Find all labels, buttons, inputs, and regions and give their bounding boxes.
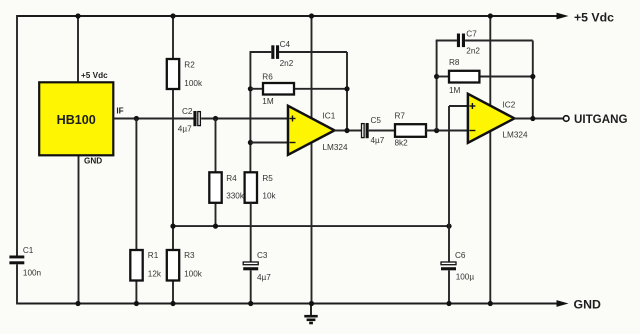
R2 value labels — [184, 60, 203, 88]
svg-text:R8: R8 — [449, 58, 460, 67]
svg-text:C2: C2 — [182, 107, 193, 116]
wire IC2 output feedback vertical — [532, 41, 534, 119]
IC1 - pin mark — [290, 142, 296, 144]
svg-text:R2: R2 — [184, 60, 195, 69]
wire +5V top rail — [17, 15, 559, 17]
svg-text:C6: C6 — [455, 251, 466, 260]
svg-text:4µ7: 4µ7 — [178, 124, 192, 133]
svg-text:1M: 1M — [449, 86, 461, 95]
op-amp IC1 — [288, 106, 335, 155]
GND arrowhead — [557, 300, 569, 307]
svg-text:IC1: IC1 — [323, 112, 336, 121]
HB100 pin label GND — [84, 157, 102, 166]
wire IC1 - input — [250, 142, 288, 144]
R1 value labels — [148, 251, 162, 278]
node R8 right — [530, 74, 535, 79]
node IC1 power on top rail — [309, 13, 314, 18]
wire GND bottom rail — [17, 303, 559, 305]
capacitor C5 — [362, 123, 369, 138]
node R8 left — [434, 74, 439, 79]
UITGANG label — [574, 113, 627, 126]
wire IC1 output to C5 — [335, 130, 362, 132]
HB100 name label — [57, 113, 96, 127]
wire R1 branch — [135, 119, 137, 304]
node R6 left — [248, 86, 253, 91]
svg-text:C5: C5 — [371, 116, 382, 125]
svg-text:IF: IF — [116, 106, 123, 115]
R7 value labels — [395, 112, 409, 148]
wire IC2 power vertical — [489, 16, 491, 304]
capacitor C6 — [441, 262, 456, 270]
module HB100 — [39, 82, 113, 155]
node IC2 - input feedback tap — [434, 128, 439, 133]
svg-text:8k2: 8k2 — [395, 139, 409, 148]
node IC2 power on top rail — [488, 13, 493, 18]
wire IF output to C2 — [113, 118, 193, 120]
node R1 tap on IF wire — [134, 116, 139, 121]
svg-text:100µ: 100µ — [456, 272, 475, 281]
ground earth symbol — [304, 304, 317, 324]
capacitor C3 — [243, 262, 258, 270]
node IC1 power on bottom rail — [309, 301, 314, 306]
C6 value labels — [455, 251, 474, 282]
node C3 on bottom rail — [248, 301, 253, 306]
capacitor C7 — [457, 34, 465, 48]
wire C7 branch top — [436, 40, 533, 42]
node C6 on bottom rail — [446, 301, 451, 306]
C4 value labels — [280, 40, 294, 68]
svg-text:C7: C7 — [466, 29, 477, 38]
wire C1 branch left vertical — [16, 15, 18, 305]
svg-text:2n2: 2n2 — [280, 59, 294, 68]
R6 value labels — [262, 73, 274, 107]
wire bias mid rail — [173, 225, 449, 227]
svg-text:C3: C3 — [257, 251, 268, 260]
resistor R4 — [209, 172, 221, 203]
svg-text:C4: C4 — [280, 40, 291, 49]
svg-text:R1: R1 — [148, 251, 159, 260]
svg-text:1M: 1M — [262, 97, 274, 106]
op-amp IC2 — [468, 94, 515, 143]
node R6 right — [344, 86, 349, 91]
+5 Vdc label — [574, 11, 614, 25]
svg-text:R5: R5 — [262, 174, 273, 183]
svg-text:HB100: HB100 — [57, 113, 96, 127]
node IC2 output feedback tap — [530, 116, 535, 121]
svg-text:C1: C1 — [23, 246, 34, 255]
HB100 pin label +5 Vdc — [81, 71, 108, 80]
UITGANG terminal — [563, 116, 569, 122]
svg-text:UITGANG: UITGANG — [574, 113, 627, 126]
node IC1 output feedback tap — [344, 128, 349, 133]
resistor R7 — [395, 124, 426, 137]
node HB100 supply on top rail — [75, 13, 80, 18]
C3 value labels — [257, 251, 271, 282]
svg-text:100n: 100n — [23, 268, 42, 277]
node C6 tap on bias rail — [446, 224, 451, 229]
wire IC2 feedback vertical — [436, 41, 438, 131]
wire R8 leads — [437, 76, 533, 78]
IC2 - pin mark — [469, 130, 475, 132]
IC1 + pin mark — [290, 116, 296, 122]
wire R7 to IC2 - input — [426, 130, 468, 132]
svg-text:100k: 100k — [184, 79, 203, 88]
IC2 name labels — [503, 101, 528, 140]
wire R4 branch — [215, 119, 217, 227]
wire HB100 +5V supply — [77, 16, 79, 82]
resistor R6 — [263, 83, 294, 95]
wire IC2 + input bias branch — [449, 106, 468, 226]
svg-text:IC2: IC2 — [503, 101, 516, 110]
svg-text:GND: GND — [84, 157, 102, 166]
wire IC2 output to UITGANG — [514, 118, 563, 120]
wire IC1 output feedback vertical — [346, 52, 348, 131]
svg-text:100k: 100k — [184, 270, 203, 279]
svg-text:2n2: 2n2 — [466, 47, 480, 56]
wire C4 branch top — [250, 51, 348, 53]
svg-text:12k: 12k — [148, 270, 162, 279]
svg-text:+5 Vdc: +5 Vdc — [81, 71, 108, 80]
capacitor C1 — [9, 256, 24, 265]
svg-text:330k: 330k — [226, 192, 245, 201]
wire IC1 feedback vertical (C4/R6/R5 node) — [249, 52, 251, 172]
R5 value labels — [262, 174, 276, 201]
svg-text:LM324: LM324 — [503, 131, 528, 140]
GND label — [574, 298, 601, 312]
svg-text:GND: GND — [574, 298, 601, 312]
wire C2 to IC1 + input — [201, 118, 288, 120]
resistor R8 — [449, 71, 479, 83]
svg-text:R6: R6 — [262, 73, 273, 82]
HB100 pin label IF — [116, 106, 123, 115]
wire R5 to C3 — [250, 203, 252, 304]
C5 value labels — [371, 116, 385, 145]
node R4 bottom on bias rail — [213, 224, 218, 229]
node R2 on top rail — [170, 13, 175, 18]
capacitor C4 — [271, 45, 279, 59]
capacitor C2 — [193, 111, 200, 126]
R4 value labels — [226, 174, 245, 201]
C2 value labels — [178, 107, 193, 133]
wire IC1 power vertical — [311, 16, 313, 304]
R8 value labels — [449, 58, 461, 95]
svg-text:R7: R7 — [395, 112, 406, 121]
wire C5 to R7 — [369, 130, 395, 132]
svg-text:+5 Vdc: +5 Vdc — [574, 11, 614, 25]
wire R6 leads — [250, 88, 347, 90]
svg-text:LM324: LM324 — [323, 143, 348, 152]
C1 value labels — [23, 246, 42, 277]
node R3 top on bias rail — [170, 224, 175, 229]
resistor R3 — [167, 250, 179, 281]
+5 Vdc arrowhead — [557, 13, 569, 20]
svg-text:R3: R3 — [184, 251, 195, 260]
wire HB100 ground lead — [78, 155, 80, 303]
node R3 on bottom rail — [170, 301, 175, 306]
wire R2/R3 divider vertical — [172, 16, 174, 304]
wire C6 branch — [448, 226, 450, 303]
IC2 + pin mark — [469, 103, 475, 109]
svg-text:R4: R4 — [226, 174, 237, 183]
resistor R1 — [130, 250, 142, 281]
node IC2 power on bottom rail — [488, 301, 493, 306]
node IC1 - input — [248, 140, 253, 145]
node R4 tap / + input — [213, 116, 218, 121]
svg-text:10k: 10k — [262, 192, 276, 201]
resistor R2 — [167, 59, 179, 89]
resistor R5 — [245, 172, 257, 203]
R3 value labels — [184, 251, 203, 278]
node R1 on bottom rail — [134, 301, 139, 306]
node HB100 ground on bottom rail — [75, 301, 80, 306]
svg-text:4µ7: 4µ7 — [371, 136, 385, 145]
C7 value labels — [466, 29, 480, 55]
IC1 name labels — [323, 112, 348, 152]
svg-text:4µ7: 4µ7 — [257, 273, 271, 282]
